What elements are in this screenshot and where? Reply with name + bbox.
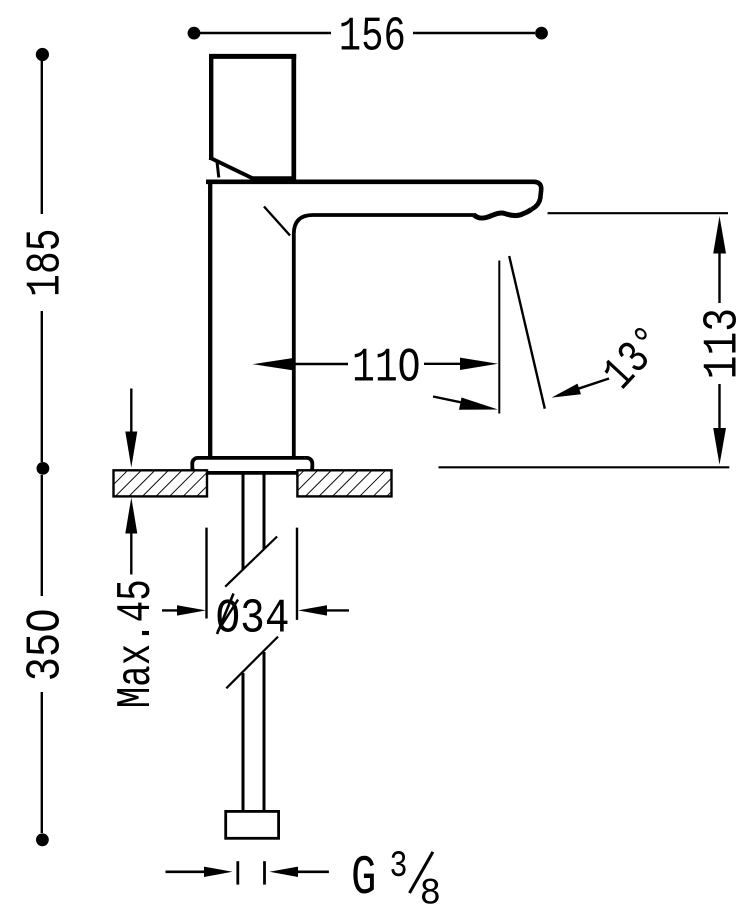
dimension D34: right arrowhead <box>298 605 327 615</box>
dimension 110: right line <box>424 363 462 365</box>
dimension G3/8: left arrow tail <box>166 870 207 873</box>
svg-text:8: 8 <box>420 874 442 908</box>
supply pipe: right line lower <box>263 652 266 812</box>
dimension 350: line lower segment <box>41 692 43 833</box>
faucet body top / spout top edge with tip curve <box>206 182 541 210</box>
supply pipe: upper break diagonal <box>225 537 277 587</box>
dimension Max.45: lower line <box>130 532 132 575</box>
svg-text:3: 3 <box>390 846 408 888</box>
faucet lever diagonal <box>210 158 255 180</box>
dimension G3/8: right tick <box>263 861 266 884</box>
dimension 113: line lower segment <box>718 384 720 430</box>
angle vertical reference line <box>498 261 500 414</box>
dimension G3/8: right arrowhead <box>269 867 298 877</box>
dimension D34: left arrowhead <box>177 605 206 615</box>
faucet handle: right edge <box>291 54 296 181</box>
svg-text:185: 185 <box>19 228 73 297</box>
dimension Max.45: upper line <box>130 389 132 435</box>
dimension D34: left extension line <box>205 528 207 619</box>
dimension D34: right arrow tail <box>325 609 349 611</box>
dimension 350: line upper segment <box>41 475 43 596</box>
spout outlet reference line (113 top reference) <box>548 212 729 214</box>
faucet body chamfer tick <box>264 207 290 236</box>
faucet handle: top edge <box>209 54 296 59</box>
supply pipe: left line lower <box>242 673 245 812</box>
dimension G3/8: right arrow tail <box>296 870 329 873</box>
dimension 156: right line <box>413 32 535 34</box>
svg-text:G: G <box>351 846 377 908</box>
svg-text:Max.45: Max.45 <box>110 579 164 708</box>
dimension 185/350: bottom dot <box>36 833 49 846</box>
spout aerator squiggle <box>474 209 532 218</box>
dimension 113: bottom arrow <box>713 428 726 465</box>
dimension 110: right arrowhead <box>460 358 498 370</box>
supply pipe: right line upper <box>263 473 266 550</box>
supply pipe: lower break diagonal <box>226 637 278 689</box>
countertop right hatched section <box>297 470 391 496</box>
angle leader arrowhead <box>552 384 582 398</box>
dimension 110: diagonal leader arrowhead <box>459 398 498 410</box>
dimension G3/8: fraction slash <box>410 852 433 893</box>
faucet lever wedge line <box>217 160 219 178</box>
dimension Max.45: down arrow <box>125 432 137 468</box>
svg-text:Ø34: Ø34 <box>216 593 290 647</box>
dimension G3/8: left tick <box>236 861 239 884</box>
dimension 110: diagonal leader line <box>433 397 465 404</box>
dimension D34: right extension line <box>296 528 298 620</box>
dimension 110: left line <box>294 363 348 365</box>
dimension 156: left dot <box>188 27 201 40</box>
dimension 185/350: middle dot <box>37 462 50 475</box>
faucet handle: bottom edge <box>252 176 296 181</box>
dimension G3/8: left arrowhead <box>204 867 233 877</box>
svg-text:113: 113 <box>697 308 751 380</box>
dimension Max.45: up arrow <box>125 498 137 534</box>
base flange <box>192 458 312 473</box>
dimension D34: diameter slash extension <box>217 594 234 635</box>
angle leader line <box>578 379 609 389</box>
svg-text:11O: 11O <box>352 342 421 396</box>
dimension 185/350: top dot <box>36 48 49 61</box>
supply pipe: left line upper <box>242 473 245 570</box>
svg-text:156: 156 <box>339 11 406 65</box>
dimension 113: top arrow <box>713 216 726 254</box>
svg-text:35O: 35O <box>19 608 73 681</box>
countertop surface extension line (113 bottom reference) <box>439 466 730 468</box>
faucet body right edge curving into spout bottom edge <box>294 215 476 459</box>
dimension 156: left line <box>199 32 331 34</box>
dimension 113: line upper segment <box>718 252 720 303</box>
dimension 156: right dot <box>535 27 548 40</box>
dimension 110: left arrowhead (into body) <box>253 358 295 371</box>
supply hose connector <box>226 811 279 838</box>
angle tilted stream line <box>509 256 545 409</box>
faucet handle: left edge <box>209 54 213 160</box>
dimension 185: line upper segment <box>41 60 43 214</box>
dimension 185: line lower segment <box>41 311 43 462</box>
countertop left hatched section <box>114 470 208 496</box>
dimension D34: left arrow tail <box>162 609 180 611</box>
faucet body left edge <box>208 180 212 459</box>
